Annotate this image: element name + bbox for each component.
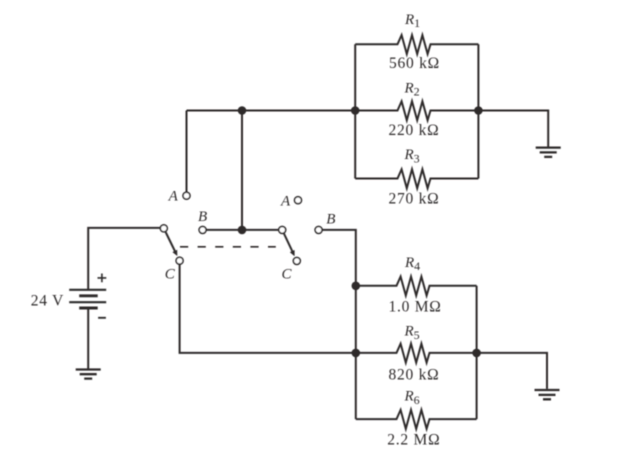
node junction dot at (355.8,352.9) xyxy=(352,349,361,358)
value 820 kohm xyxy=(389,366,440,383)
wire: lower bank to ground xyxy=(477,353,547,389)
svg-text:C: C xyxy=(282,267,293,283)
resistor R4 (1.0 Mohm) xyxy=(356,277,477,296)
switch SW1 arm with arrowhead to C xyxy=(166,232,176,252)
svg-text:24 V: 24 V xyxy=(31,292,64,309)
battery plus sign xyxy=(98,274,107,283)
switch SW2 pole contact xyxy=(279,226,286,233)
value 270 kohm xyxy=(389,191,440,208)
wire: lower bank right vertical xyxy=(476,286,478,419)
node junction dot at upper bank right (478.4,110.5) xyxy=(474,106,483,115)
svg-text:B: B xyxy=(198,209,207,225)
svg-text:220 kΩ: 220 kΩ xyxy=(389,122,440,139)
node label A (SW2) xyxy=(280,193,291,209)
switch SW1 contact B xyxy=(199,226,206,233)
switch SW1 contact C xyxy=(176,257,183,264)
label R3 xyxy=(404,147,420,165)
svg-text:820 kΩ: 820 kΩ xyxy=(389,366,440,383)
resistor R3 (270 kohm) xyxy=(355,169,478,188)
switch SW2 arm with arrowhead to C xyxy=(284,234,293,252)
node label A (SW1) xyxy=(168,189,179,205)
resistor R5 (820 kohm) xyxy=(356,344,477,363)
svg-text:R5: R5 xyxy=(404,324,420,342)
svg-text:R1: R1 xyxy=(404,12,420,30)
node junction dot at (355.8,285.8) xyxy=(352,282,361,291)
value 560 kohm xyxy=(389,55,440,72)
svg-text:A: A xyxy=(168,189,179,205)
wire: vertical from main node down to B contact line xyxy=(241,111,243,230)
svg-text:270 kΩ: 270 kΩ xyxy=(389,191,440,208)
svg-text:560 kΩ: 560 kΩ xyxy=(389,55,440,72)
label R4 xyxy=(404,255,420,273)
node junction dot at (242,229.4) xyxy=(238,226,247,235)
label R2 xyxy=(404,80,420,98)
svg-text:C: C xyxy=(165,267,176,283)
wire: SW2 B contact to lower bank xyxy=(322,230,356,286)
svg-text:1.0 MΩ: 1.0 MΩ xyxy=(389,298,442,315)
label R6 xyxy=(404,388,420,406)
ground (lower right) xyxy=(535,390,560,399)
node junction dot at (242,110.5) xyxy=(238,106,247,115)
wire: SW1 B contact to SW2 pole xyxy=(206,229,279,231)
node label B (SW2) xyxy=(326,212,335,228)
svg-text:R6: R6 xyxy=(404,388,420,406)
resistor R2 (220 kohm) xyxy=(355,101,478,120)
battery 24V xyxy=(69,290,106,308)
switch SW1 contact A xyxy=(183,192,190,199)
node label B (SW1) xyxy=(198,209,207,225)
label 24 V xyxy=(31,292,64,309)
switch SW2 contact C xyxy=(293,257,300,264)
wire: contact A up to main node xyxy=(186,111,188,193)
wire: lower bank left vertical xyxy=(355,286,357,419)
value 2.2 Mohm xyxy=(387,431,440,448)
value 220 kohm xyxy=(389,122,440,139)
switch SW1 pole contact xyxy=(160,225,167,232)
battery minus sign xyxy=(98,317,106,319)
resistor R6 (2.2 Mohm) xyxy=(356,410,477,429)
node label C (SW1) xyxy=(165,267,176,283)
svg-text:R3: R3 xyxy=(404,147,420,165)
switch SW2 contact A xyxy=(295,197,302,204)
wire: SW1 C contact down and right to lower bank R5 node xyxy=(180,264,356,353)
gang dashed link between SW1 and SW2 xyxy=(180,246,276,248)
wire: upper bank left vertical xyxy=(354,44,356,178)
ground (battery) xyxy=(76,370,101,379)
svg-text:A: A xyxy=(280,193,291,209)
label R5 xyxy=(404,324,420,342)
wire: upper bank right vertical xyxy=(477,44,479,178)
switch SW2 contact B xyxy=(315,226,322,233)
svg-text:R4: R4 xyxy=(404,255,420,273)
wire: battery bottom to ground xyxy=(87,308,89,369)
ground (upper right) xyxy=(536,148,561,157)
wire: battery top to left switch pole xyxy=(88,228,160,289)
node junction dot at (476.6,352.9) xyxy=(472,349,481,358)
wire: main top node from A-branch corner to upper bank xyxy=(187,110,356,112)
label R1 xyxy=(404,12,420,30)
resistor R1 (560 kohm) xyxy=(355,35,478,54)
svg-text:B: B xyxy=(326,212,335,228)
value 1.0 Mohm xyxy=(389,298,442,315)
node junction dot at upper bank left (355.5,110.5) xyxy=(351,106,360,115)
svg-text:R2: R2 xyxy=(404,80,420,98)
wire: upper bank to ground xyxy=(478,111,548,147)
node label C (SW2) xyxy=(282,267,293,283)
svg-text:2.2 MΩ: 2.2 MΩ xyxy=(387,431,440,448)
